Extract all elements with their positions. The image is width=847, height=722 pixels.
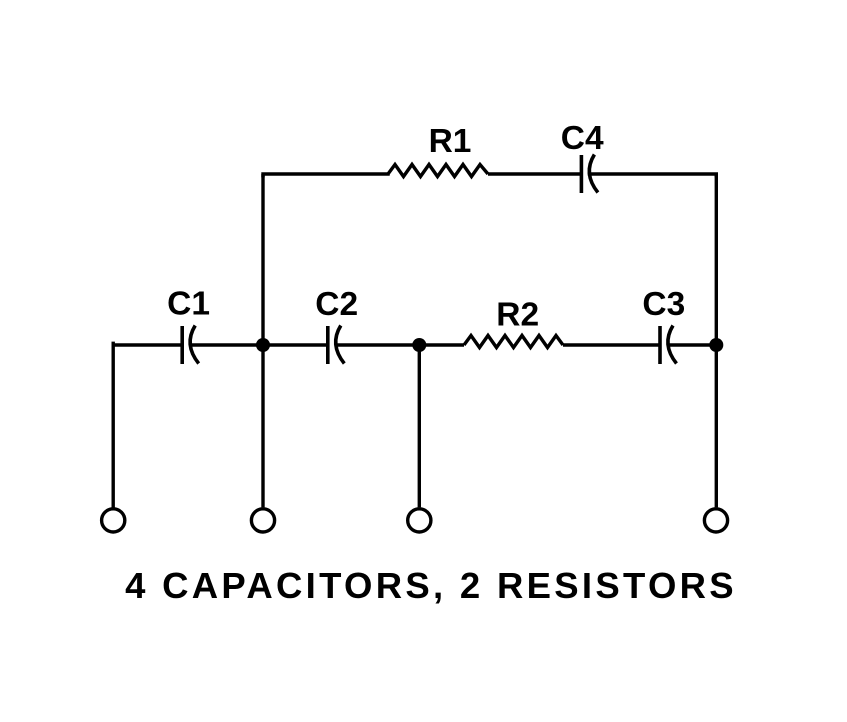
wire: C1 to C2 through node A (191, 343, 328, 346)
node B junction dot (412, 338, 426, 352)
wire: vertical right side to terminal 4 (715, 174, 718, 507)
node C junction dot (709, 338, 723, 352)
resistor R1 (388, 165, 488, 177)
capacitor C4 (581, 155, 598, 194)
terminal circle 4 (704, 509, 727, 532)
svg-text:C2: C2 (315, 286, 358, 323)
capacitor C3 (660, 326, 677, 365)
node A junction dot (256, 338, 270, 352)
svg-text:R2: R2 (496, 297, 539, 334)
resistor R2 (464, 336, 563, 348)
wire: middle row left segment (113, 343, 182, 346)
wire: C4 to top-right corner (590, 174, 717, 176)
wire: C2 to R2 through node B (336, 343, 464, 346)
svg-text:C3: C3 (642, 286, 685, 323)
terminal circle 3 (408, 509, 431, 532)
svg-text:4 CAPACITORS, 2 RESISTORS: 4 CAPACITORS, 2 RESISTORS (125, 565, 737, 606)
svg-text:C1: C1 (167, 286, 210, 323)
capacitor C2 (328, 326, 345, 365)
wire: vertical node B to terminal 3 (418, 345, 421, 507)
terminal circle 1 (102, 509, 125, 532)
svg-text:R1: R1 (429, 123, 472, 160)
wire: R1 to C4 (488, 172, 581, 175)
wire: vertical node A to terminal 2 (261, 174, 264, 507)
capacitor C1 (182, 326, 199, 365)
wire: top row node A corner to R1 (263, 174, 388, 176)
wire: C3 to node C (668, 343, 716, 346)
terminal circle 2 (251, 509, 274, 532)
svg-text:C4: C4 (561, 120, 604, 157)
wire: R2 to C3 (563, 343, 660, 346)
wire: vertical terminal 1 (111, 343, 114, 507)
